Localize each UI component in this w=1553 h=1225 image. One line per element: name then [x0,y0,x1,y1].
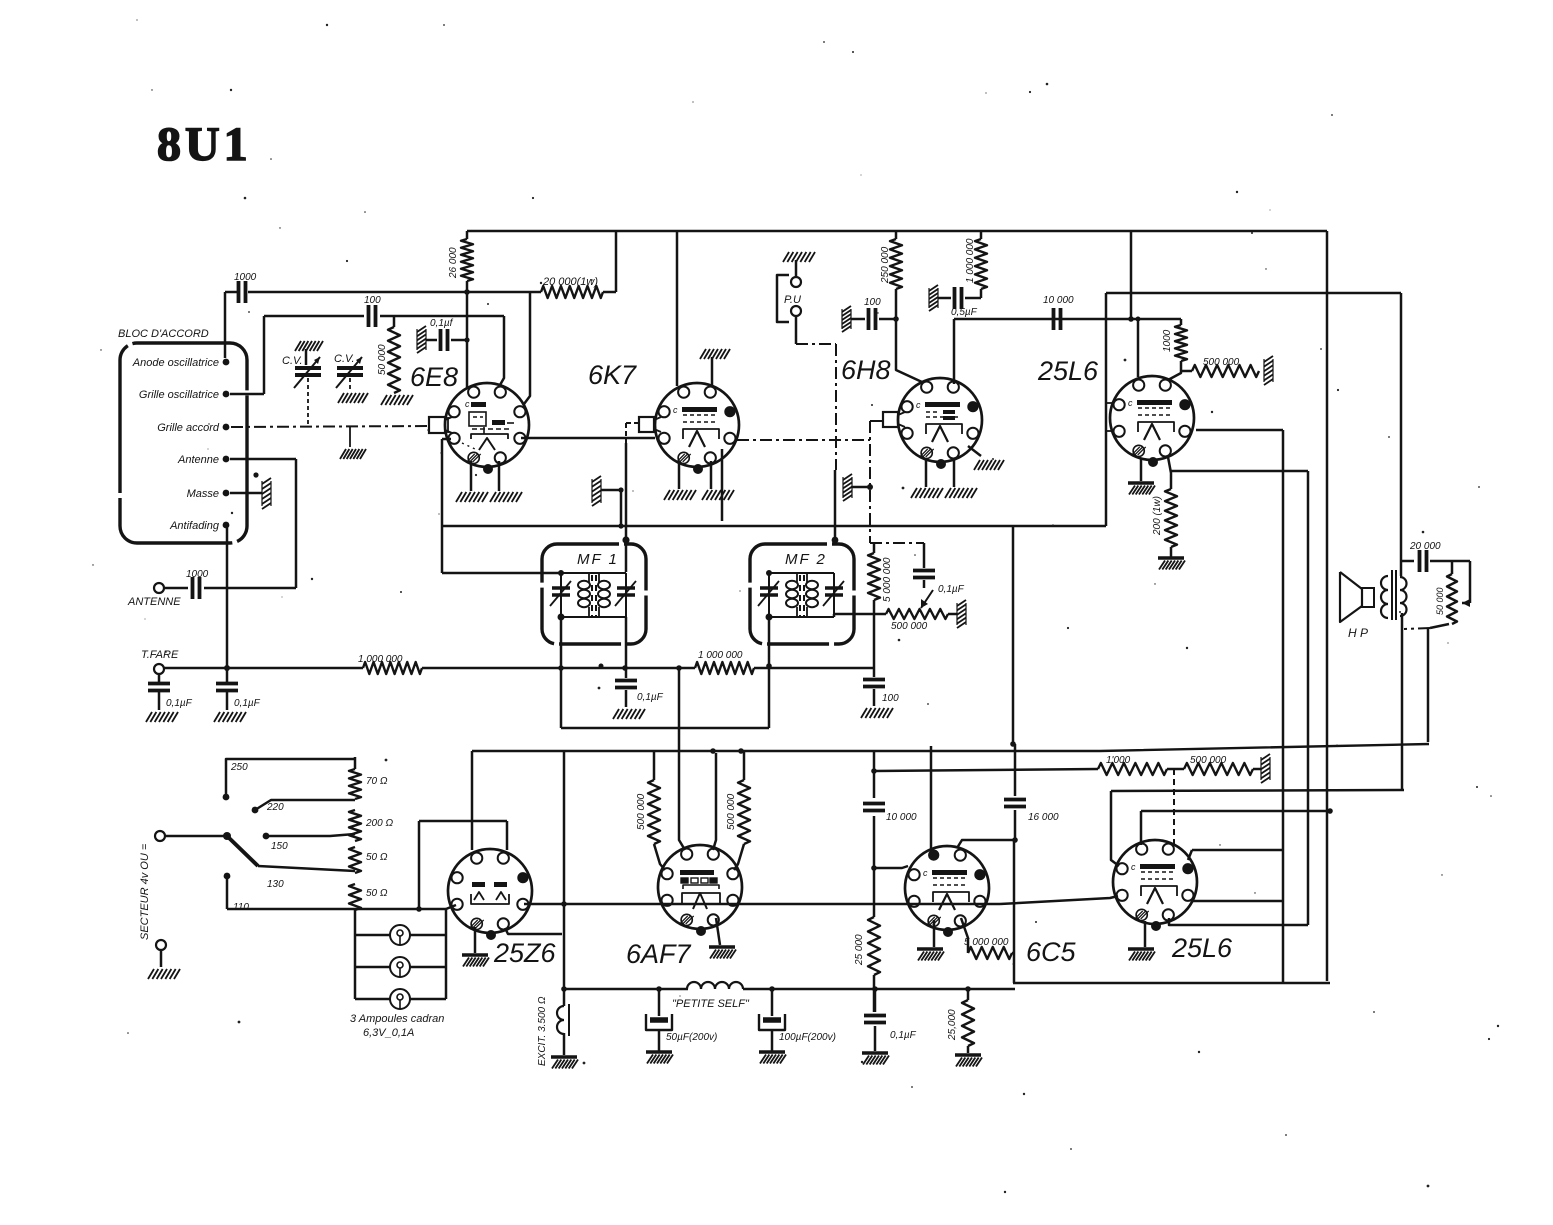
svg-text:c: c [916,400,921,410]
svg-text:200 Ω: 200 Ω [365,818,393,829]
svg-text:500 000: 500 000 [726,793,737,830]
svg-text:Anode oscillatrice: Anode oscillatrice [132,357,219,369]
svg-text:1 000 000: 1 000 000 [965,238,976,283]
svg-text:Masse: Masse [187,488,219,500]
svg-text:BLOC D'ACCORD: BLOC D'ACCORD [118,328,209,340]
svg-text:200 (1w): 200 (1w) [1152,496,1163,536]
svg-text:Grille accord: Grille accord [157,422,220,434]
svg-text:P.U: P.U [784,294,801,306]
svg-text:500 000: 500 000 [891,621,928,632]
svg-text:1000: 1000 [234,272,257,283]
svg-text:0,1µf: 0,1µf [430,318,454,329]
svg-text:250 000: 250 000 [880,246,891,284]
svg-text:500 000: 500 000 [636,793,647,830]
svg-text:1 000 000: 1 000 000 [358,654,403,665]
svg-text:150: 150 [271,841,288,852]
svg-text:EXCIT. 3.500 Ω: EXCIT. 3.500 Ω [537,996,548,1066]
svg-text:1000: 1000 [186,569,209,580]
svg-text:100: 100 [364,295,381,306]
svg-text:50 000: 50 000 [377,344,388,375]
svg-text:c: c [1128,398,1133,408]
svg-text:500 000: 500 000 [1203,357,1240,368]
svg-text:50µF(200v): 50µF(200v) [666,1032,717,1043]
svg-text:6C5: 6C5 [1026,937,1077,967]
svg-text:20 000: 20 000 [1409,541,1441,552]
svg-text:H P: H P [1348,626,1368,640]
svg-text:100µF(200v): 100µF(200v) [779,1032,836,1043]
svg-text:3 Ampoules cadran: 3 Ampoules cadran [350,1013,444,1025]
svg-text:5 000 000: 5 000 000 [964,937,1009,948]
svg-text:1 000 000: 1 000 000 [698,650,743,661]
svg-text:0,1µF: 0,1µF [234,698,261,709]
svg-text:25Z6: 25Z6 [493,938,557,968]
svg-text:10 000: 10 000 [886,812,917,823]
svg-text:c: c [465,399,470,409]
svg-text:MF 2: MF 2 [785,551,827,568]
svg-text:100: 100 [882,693,899,704]
svg-text:130: 130 [267,879,284,890]
svg-text:100: 100 [864,297,881,308]
svg-text:25 000: 25 000 [854,934,865,966]
svg-text:250: 250 [230,762,248,773]
svg-text:Antifading: Antifading [169,520,220,532]
svg-text:6,3V_0,1A: 6,3V_0,1A [363,1027,414,1039]
svg-text:220: 220 [266,802,284,813]
svg-text:8U1: 8U1 [157,118,252,171]
svg-text:6AF7: 6AF7 [626,939,692,969]
svg-text:c: c [923,868,928,878]
svg-text:1'000: 1'000 [1106,755,1131,766]
svg-text:MF 1: MF 1 [577,551,619,568]
svg-text:Grille oscillatrice: Grille oscillatrice [139,389,219,401]
svg-text:25L6: 25L6 [1171,933,1233,963]
svg-text:500 000: 500 000 [1190,755,1227,766]
svg-text:6K7: 6K7 [588,360,637,390]
svg-text:ANTENNE: ANTENNE [127,596,181,608]
svg-text:50 000: 50 000 [1435,587,1445,615]
svg-text:16 000: 16 000 [1028,812,1059,823]
svg-text:c: c [673,405,678,415]
svg-text:6H8: 6H8 [841,355,891,385]
svg-text:10 000: 10 000 [1043,295,1074,306]
svg-text:T.FARE: T.FARE [141,649,179,661]
svg-text:20 000(1w): 20 000(1w) [542,276,598,288]
svg-text:C.V.: C.V. [334,353,355,365]
svg-text:25L6: 25L6 [1037,356,1099,386]
svg-text:5 000 000: 5 000 000 [882,557,893,602]
svg-text:0,5µF: 0,5µF [951,307,978,318]
svg-text:25,000: 25,000 [947,1009,958,1041]
svg-text:SECTEUR 4v OU =: SECTEUR 4v OU = [139,843,151,940]
svg-text:26 000: 26 000 [448,247,459,279]
svg-text:70 Ω: 70 Ω [366,776,388,787]
svg-text:0,1µF: 0,1µF [637,692,664,703]
svg-text:1000: 1000 [1162,329,1173,352]
svg-text:0,1µF: 0,1µF [890,1030,917,1041]
svg-text:6E8: 6E8 [410,362,458,392]
svg-text:110: 110 [233,902,249,913]
svg-text:50 Ω: 50 Ω [366,888,388,899]
svg-text:"PETITE SELF": "PETITE SELF" [672,998,750,1010]
svg-text:50 Ω: 50 Ω [366,852,388,863]
svg-text:C.V.: C.V. [282,355,303,367]
svg-text:Antenne: Antenne [177,454,219,466]
svg-text:0,1µF: 0,1µF [166,698,193,709]
svg-text:0,1µF: 0,1µF [938,584,965,595]
svg-text:c: c [1131,862,1136,872]
